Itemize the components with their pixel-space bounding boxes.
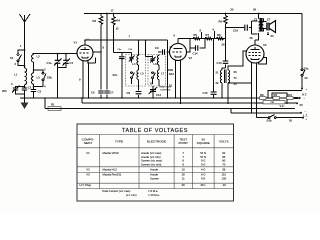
svg-text:V2: V2 [189, 56, 193, 60]
switch S1 [10, 50, 25, 66]
wire HT drop [106, 14, 108, 89]
svg-text:V1: V1 [86, 151, 90, 155]
svg-text:Anode: Anode [150, 167, 159, 171]
bus E (L.T. plus) with switch S3b [257, 115, 308, 123]
resistor R3 [93, 14, 103, 89]
resistor R5 [193, 33, 200, 40]
svg-text:(v.c min): (v.c min) [126, 193, 137, 197]
resistor R9b [273, 93, 280, 99]
svg-text:R8: R8 [217, 33, 221, 37]
svg-text:NENT: NENT [84, 141, 93, 145]
svg-text:L1: L1 [14, 73, 18, 77]
V2 pin wires [176, 60, 181, 103]
resistor R4 [112, 14, 121, 53]
svg-text:CONTROL: CONTROL [160, 90, 171, 92]
terminal G.B. [280, 102, 304, 108]
capacitor C15 [203, 91, 217, 99]
svg-text:C13: C13 [217, 61, 223, 65]
terminal H.T. minus [294, 97, 306, 101]
gang capacitor C4 [58, 53, 74, 68]
anode resistor row wire [178, 38, 226, 40]
svg-text:23: 23 [234, 70, 238, 74]
svg-text:R7: R7 [206, 33, 210, 37]
svg-text:18: 18 [169, 84, 173, 88]
svg-text:100: 100 [221, 177, 226, 181]
svg-text:26 L: 26 L [200, 183, 206, 187]
svg-text:R8: R8 [260, 93, 264, 97]
valve V2 [170, 34, 193, 61]
svg-text:C16: C16 [233, 29, 239, 33]
svg-text:17: 17 [111, 9, 115, 13]
wire dropper [213, 39, 215, 92]
wire antenna to coil [24, 50, 26, 67]
svg-text:C4: C4 [70, 61, 74, 65]
svg-text:Screen: Screen [150, 177, 159, 181]
switch can1 [131, 72, 135, 84]
svg-text:Mazda VP23: Mazda VP23 [103, 151, 119, 155]
svg-text:27: 27 [267, 18, 271, 22]
divider loop wires [268, 91, 302, 105]
svg-text:H.T. Plug: H.T. Plug [80, 183, 92, 187]
svg-text:SQUARE: SQUARE [197, 141, 210, 145]
svg-text:ELECTRODE: ELECTRODE [147, 140, 166, 144]
capacitor C7 (bus) [104, 89, 114, 99]
switch S3a [301, 67, 309, 81]
svg-text:Mazda Pen231: Mazda Pen231 [103, 173, 122, 177]
svg-text:26: 26 [253, 8, 257, 12]
wire L2-L3 [33, 62, 35, 73]
svg-text:22: 22 [216, 81, 220, 85]
grid feed wire y40 [85, 39, 168, 41]
V3 pin wires [252, 63, 257, 118]
svg-text:POINT: POINT [178, 141, 188, 145]
bus A (earth) [20, 97, 299, 99]
svg-text:C14: C14 [193, 52, 199, 56]
svg-text:L7: L7 [161, 72, 165, 76]
valve V1 [74, 39, 94, 61]
valve V3 [246, 43, 267, 63]
resistor R1 [48, 103, 61, 111]
svg-text:L3: L3 [37, 76, 41, 80]
svg-text:R6: R6 [219, 20, 223, 24]
svg-text:V3: V3 [86, 173, 90, 177]
coil L7 [157, 70, 164, 86]
svg-text:30: 30 [271, 34, 275, 38]
resistor R6 [219, 14, 228, 39]
svg-text:2V: 2V [300, 103, 304, 107]
padder capacitor C6a [114, 53, 132, 99]
svg-text:T1: T1 [234, 76, 238, 80]
IF can 2 (dashed) [148, 55, 166, 87]
svg-text:24: 24 [234, 82, 238, 86]
svg-text:S3d: S3d [169, 72, 174, 76]
reaction control C12 [149, 86, 172, 99]
transformer T1 [216, 51, 252, 103]
svg-text:L6: L6 [153, 62, 157, 66]
svg-text:V3: V3 [263, 43, 267, 47]
svg-text:TYPE: TYPE [115, 140, 123, 144]
switch S3d in can2 [152, 72, 156, 84]
svg-text:25: 25 [231, 8, 235, 12]
svg-text:C9: C9 [155, 46, 159, 50]
svg-text:9 G: 9 G [201, 162, 206, 166]
coil L6 [153, 55, 159, 71]
svg-text:C6: C6 [91, 91, 95, 95]
svg-text:C8: C8 [127, 91, 131, 95]
node 4 [33, 86, 35, 88]
svg-text:38: 38 [222, 167, 226, 171]
svg-text:R10: R10 [287, 93, 293, 97]
svg-text:12: 12 [116, 27, 120, 31]
resistor R7 [205, 33, 212, 40]
terminal H.T. plus [301, 88, 308, 97]
svg-text:L4: L4 [132, 62, 136, 66]
V1 anode wire [93, 51, 101, 53]
capacitor C6 (bus) [91, 89, 104, 99]
resistor R8b [260, 93, 267, 99]
svg-text:R3: R3 [93, 19, 97, 23]
coil L4 [132, 55, 138, 71]
voltage table [77, 124, 234, 201]
svg-text:R4: R4 [117, 19, 121, 23]
svg-text:29: 29 [182, 183, 186, 187]
right H.T. drop wire [301, 14, 303, 89]
coil L2 [32, 54, 41, 62]
capacitor C8 [127, 86, 142, 99]
svg-text:L5: L5 [141, 72, 145, 76]
svg-text:70: 70 [222, 162, 226, 166]
coil L5 [137, 70, 144, 86]
svg-text:S3a: S3a [304, 67, 309, 71]
wire V2 anode [187, 48, 191, 52]
svg-text:R9: R9 [274, 93, 278, 97]
resistor R10b [263, 93, 293, 104]
junction dots antenna branch [24, 49, 26, 51]
capacitor C2 [22, 86, 32, 98]
capacitor C3 [31, 90, 42, 99]
svg-text:4 G: 4 G [201, 167, 206, 171]
capacitor C16 [226, 21, 258, 34]
svg-text:H.T.: H.T. [302, 93, 307, 97]
svg-text:TABLE OF VOLTAGES: TABLE OF VOLTAGES [122, 128, 188, 134]
IF can 1 (dashed) [126, 55, 146, 87]
bus C [45, 98, 295, 109]
svg-text:C2: C2 [28, 86, 32, 90]
wire L1 to caps [24, 85, 26, 87]
svg-text:20: 20 [305, 76, 309, 80]
svg-text:C1a: C1a [47, 61, 53, 65]
svg-text:19: 19 [150, 82, 154, 86]
trimmer capacitor C6b can1 [129, 53, 135, 63]
gang capacitor C1a [47, 53, 62, 98]
svg-text:28: 28 [250, 36, 254, 40]
bus D (L.T. minus) [231, 109, 308, 118]
capacitor C14 [190, 39, 205, 56]
svg-text:V.C.: V.C. [280, 104, 285, 108]
svg-text:9 E: 9 E [201, 177, 205, 181]
node 2 [33, 69, 35, 71]
antenna [20, 14, 31, 50]
bus B [82, 98, 296, 103]
svg-text:VOLTS: VOLTS [219, 140, 229, 144]
top H.T. bus [84, 13, 302, 15]
wire reaction tap [168, 40, 174, 98]
svg-text:C12: C12 [156, 93, 162, 97]
svg-text:C15: C15 [203, 91, 209, 95]
svg-text:S1: S1 [10, 56, 14, 60]
resistor R8a [217, 33, 224, 40]
coil L1 [14, 66, 27, 85]
svg-text:T2: T2 [254, 18, 258, 22]
svg-text:C7: C7 [110, 91, 114, 95]
svg-text:26: 26 [222, 43, 226, 47]
svg-text:-10: -10 [222, 183, 226, 187]
svg-text:V1: V1 [74, 41, 78, 45]
earth ground [21, 97, 29, 109]
svg-text:Mazda HL2: Mazda HL2 [103, 167, 118, 171]
top wire of tuned circuit [33, 53, 78, 55]
switch S2b [34, 70, 53, 87]
transformer T2 [254, 13, 271, 32]
svg-text:C3: C3 [38, 90, 42, 94]
capacitor C9 [155, 45, 173, 55]
svg-text:Screen (v/c min): Screen (v/c min) [141, 162, 161, 166]
wire drops into IF cans [138, 40, 140, 55]
svg-text:21: 21 [216, 71, 220, 75]
svg-text:10: 10 [182, 167, 186, 171]
svg-text:L2: L2 [37, 55, 41, 59]
svg-text:11: 11 [182, 177, 185, 181]
svg-text:S3b: S3b [267, 119, 272, 123]
svg-text:250: 250 [2, 89, 7, 93]
variable capacitor C1 250 [2, 86, 25, 95]
trimmer capacitor can2 [150, 56, 156, 63]
speaker [264, 19, 276, 39]
V3 side hook [259, 58, 267, 65]
svg-text:R1: R1 [51, 103, 55, 107]
capacitor C13 [217, 39, 229, 68]
svg-text:S2b: S2b [47, 76, 52, 80]
svg-text:V2: V2 [86, 167, 90, 171]
svg-text:= 23 M.a.: = 23 M.a. [148, 193, 160, 197]
svg-text:20: 20 [289, 118, 293, 122]
coil L3 [32, 73, 41, 84]
svg-text:R5: R5 [194, 33, 198, 37]
V1 pin wires [83, 58, 96, 99]
svg-text:S2c: S2c [113, 73, 118, 77]
